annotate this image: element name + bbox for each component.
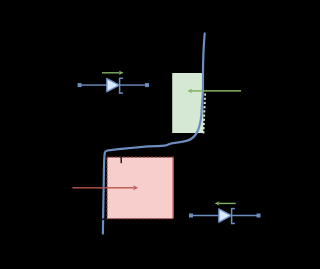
diode D2 (bottom right, reverse breakdown conduction) — [189, 201, 261, 223]
cathode bar with hooks — [120, 78, 123, 93]
cathode bar with hooks — [232, 209, 235, 224]
x axis (black, hidden on background) — [70, 154, 280, 156]
axis tick -Vz (black, visible over pink box) — [120, 156, 122, 163]
wire — [80, 84, 148, 86]
red arrow pointing into breakdown region — [72, 185, 138, 190]
diode I-V characteristic curve — [103, 34, 205, 234]
wire — [191, 215, 259, 217]
right terminal square — [257, 214, 261, 218]
solid right edge of breakdown box — [172, 158, 174, 219]
tick mark -Iz crossing the curve (black, visible over curve) — [100, 218, 107, 220]
green arrow pointing into forward-bias region — [187, 89, 241, 94]
forward-bias region highlight (green box) — [172, 73, 203, 133]
dashed guideline at knee (pale green dashes right of curve) — [203, 94, 205, 135]
y axis (black, hidden on background) — [170, 30, 172, 155]
anode triangle — [107, 79, 120, 92]
anode triangle — [219, 209, 232, 222]
left terminal square — [189, 214, 193, 218]
left terminal square — [78, 83, 82, 87]
diode D1 (top left, forward conduction) — [78, 71, 149, 94]
reverse current arrow (green, pointing left) — [219, 202, 236, 204]
forward current arrow (green) — [102, 72, 120, 74]
breakdown region highlight (pink box, dashed red border) — [107, 157, 173, 218]
right terminal square — [145, 83, 149, 87]
